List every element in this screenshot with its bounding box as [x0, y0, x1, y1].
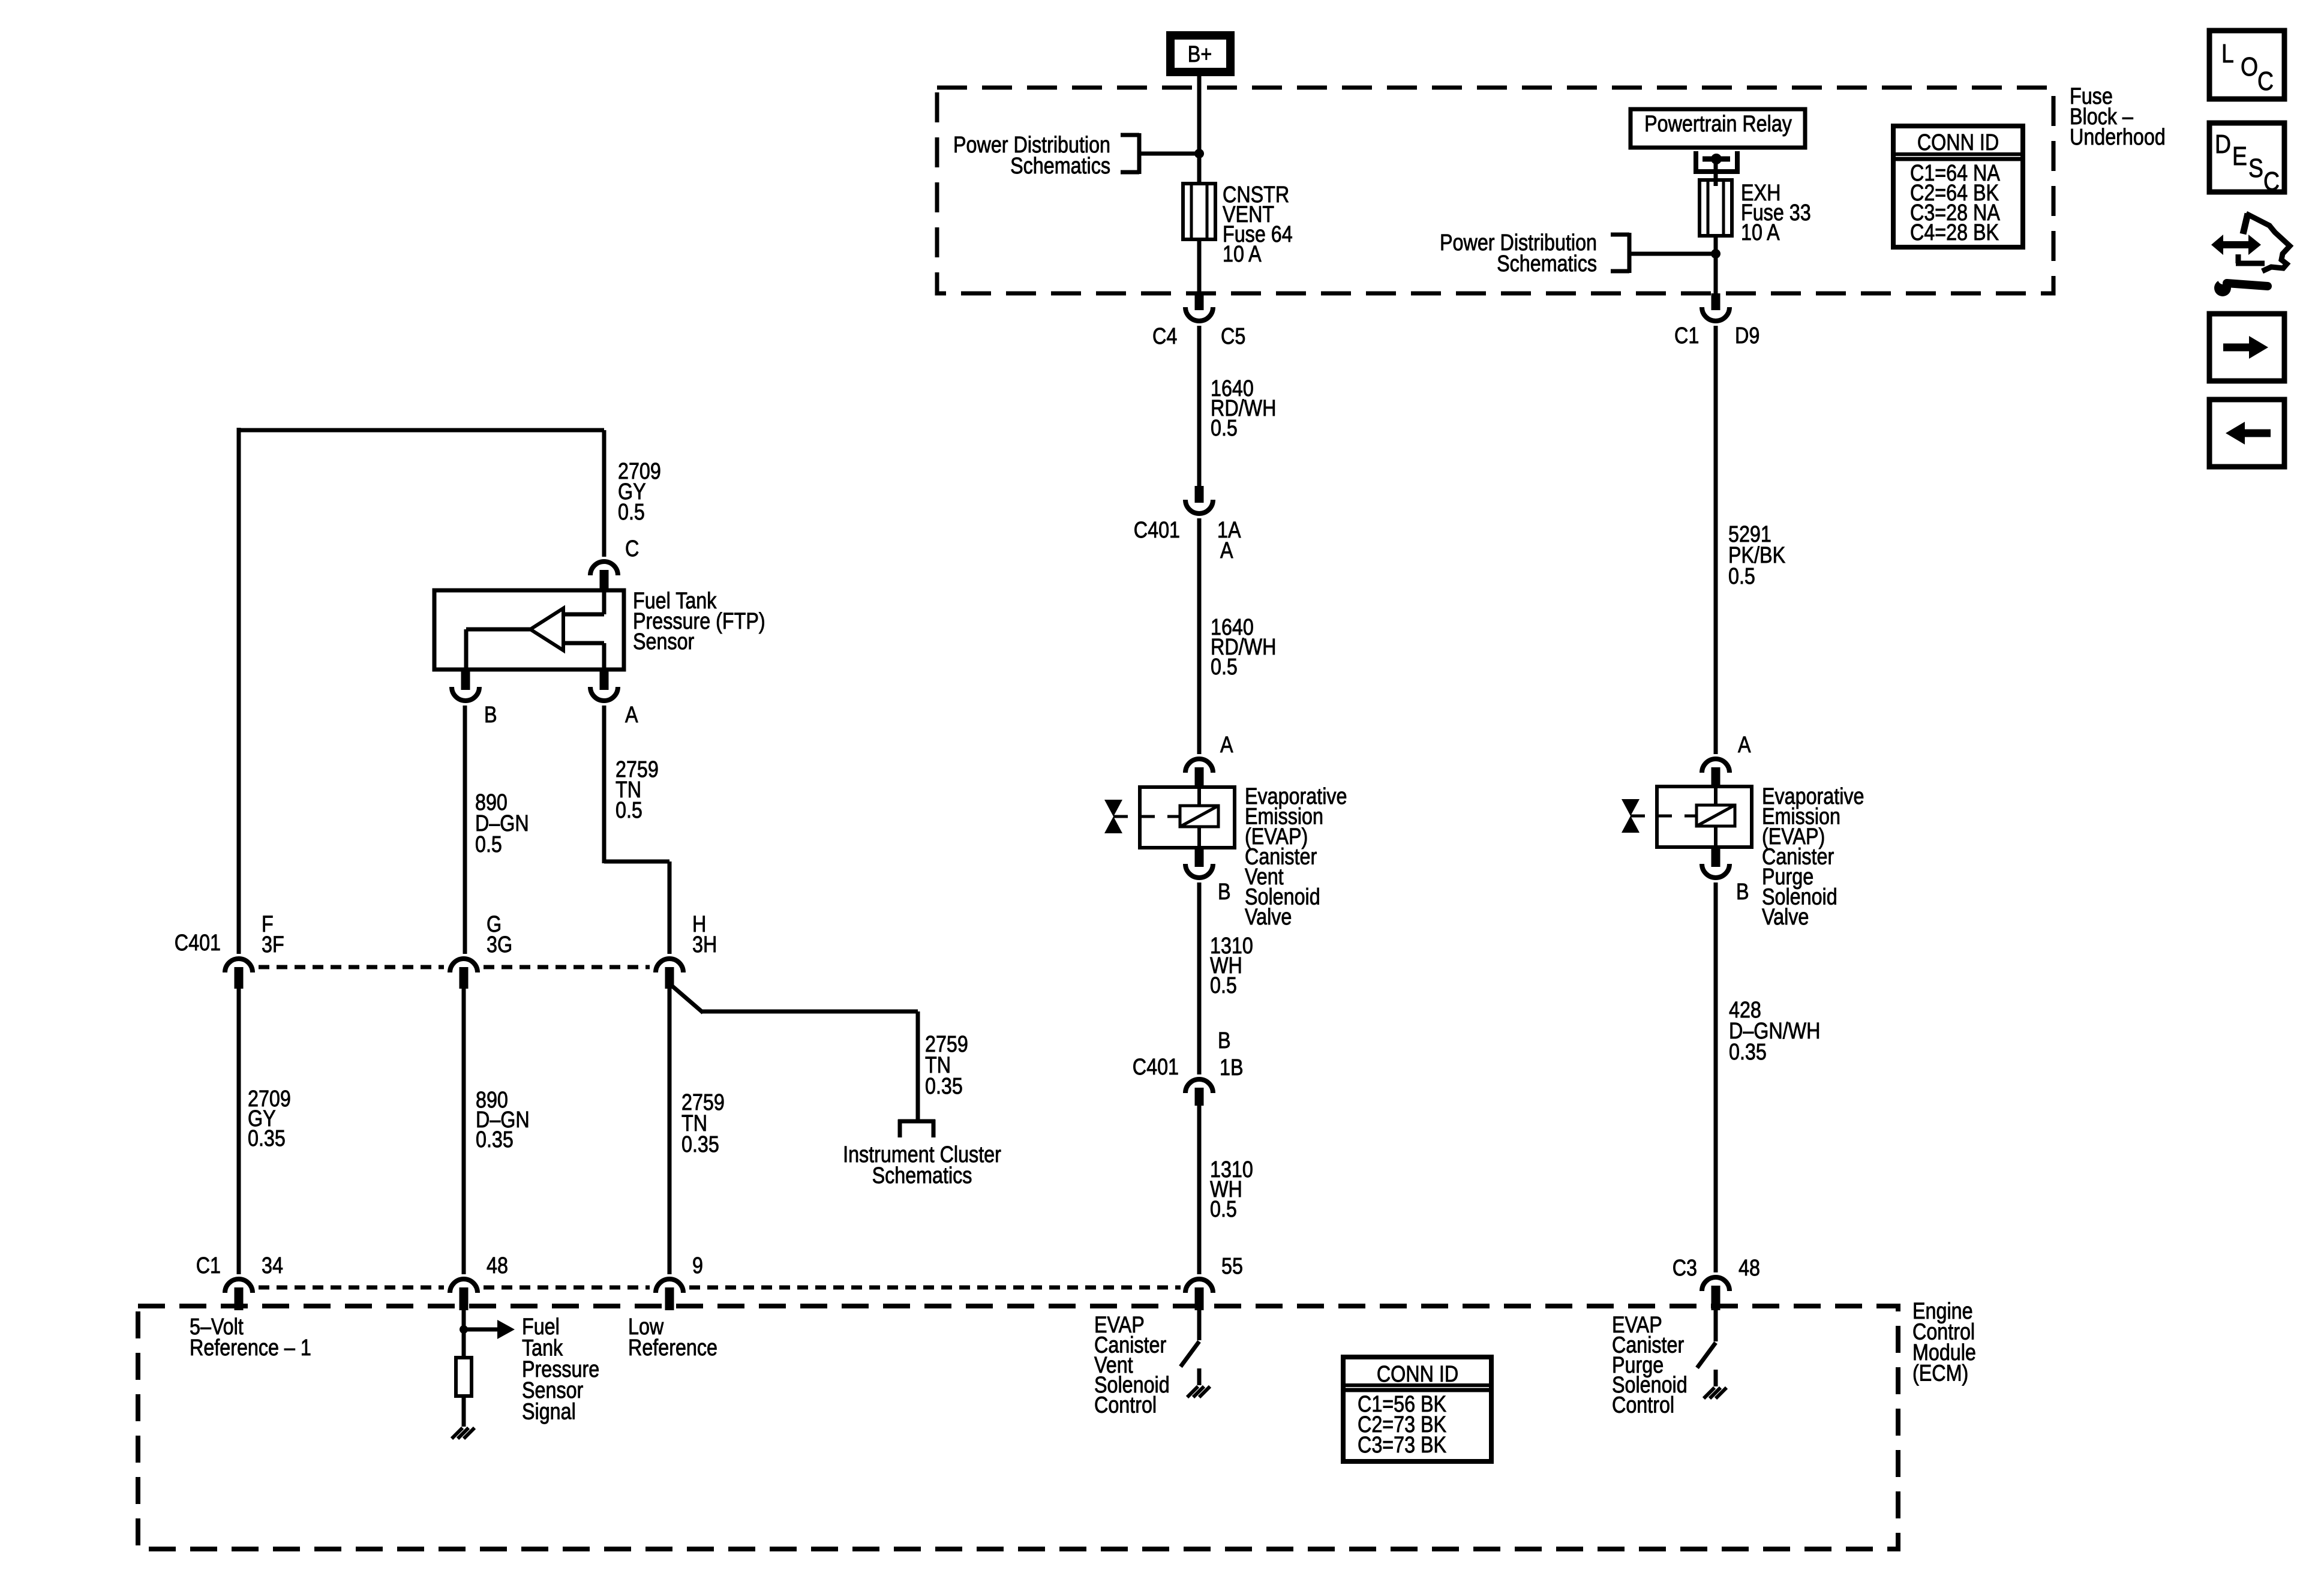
svg-text:C: C [2263, 166, 2280, 196]
svg-text:10 A: 10 A [1741, 220, 1780, 245]
svg-text:0.5: 0.5 [615, 798, 642, 823]
svg-text:CONN ID: CONN ID [1917, 130, 1999, 155]
svg-text:1B: 1B [1220, 1055, 1243, 1080]
svg-text:0.5: 0.5 [618, 500, 645, 525]
svg-text:L: L [2221, 38, 2234, 68]
svg-text:Reference: Reference [628, 1335, 717, 1361]
svg-text:C: C [2257, 66, 2274, 96]
svg-text:C401: C401 [1134, 518, 1180, 543]
svg-text:S: S [2248, 153, 2263, 183]
svg-text:Sensor: Sensor [633, 629, 695, 655]
svg-text:C4: C4 [1152, 324, 1177, 349]
svg-text:Reference – 1: Reference – 1 [190, 1335, 311, 1361]
svg-text:0.35: 0.35 [248, 1126, 286, 1151]
svg-text:Underhood: Underhood [2070, 125, 2166, 150]
svg-text:C401: C401 [1133, 1055, 1179, 1080]
svg-text:A: A [625, 703, 638, 728]
svg-text:0.5: 0.5 [1210, 1197, 1237, 1222]
svg-text:0.5: 0.5 [1210, 973, 1237, 998]
svg-text:0.35: 0.35 [476, 1127, 514, 1152]
svg-text:0.5: 0.5 [1211, 416, 1238, 441]
svg-text:C5: C5 [1221, 324, 1245, 349]
svg-text:Schematics: Schematics [1010, 154, 1110, 179]
svg-text:0.35: 0.35 [681, 1132, 719, 1157]
svg-text:D: D [2215, 129, 2231, 159]
svg-text:48: 48 [487, 1253, 508, 1278]
svg-text:0.5: 0.5 [475, 832, 502, 857]
svg-text:C: C [625, 536, 639, 562]
svg-text:B: B [1218, 879, 1231, 905]
svg-text:A: A [1220, 538, 1233, 563]
svg-text:Control: Control [1612, 1392, 1674, 1418]
svg-text:55: 55 [1221, 1254, 1243, 1279]
svg-text:C3: C3 [1673, 1256, 1697, 1281]
svg-text:CONN ID: CONN ID [1377, 1362, 1458, 1387]
svg-text:A: A [1220, 733, 1233, 758]
svg-text:B: B [1218, 1028, 1231, 1053]
svg-text:B: B [1736, 879, 1749, 905]
svg-text:E: E [2232, 141, 2247, 171]
svg-text:Control: Control [1094, 1392, 1157, 1418]
svg-text:3F: 3F [262, 932, 284, 957]
svg-text:0.35: 0.35 [925, 1074, 963, 1099]
svg-text:10 A: 10 A [1223, 242, 1262, 267]
svg-text:Schematics: Schematics [872, 1163, 972, 1188]
svg-text:D9: D9 [1735, 323, 1759, 349]
svg-text:C1: C1 [1674, 323, 1699, 349]
svg-text:O: O [2241, 52, 2258, 82]
svg-text:A: A [1738, 733, 1751, 758]
svg-text:34: 34 [262, 1253, 283, 1278]
svg-text:9: 9 [692, 1253, 703, 1278]
svg-text:B: B [484, 703, 497, 728]
svg-text:Valve: Valve [1762, 905, 1809, 930]
svg-text:3H: 3H [692, 932, 717, 957]
svg-text:B+: B+ [1188, 42, 1212, 67]
svg-text:Signal: Signal [522, 1399, 576, 1424]
svg-text:3G: 3G [487, 932, 512, 957]
svg-text:Valve: Valve [1245, 905, 1292, 930]
svg-text:0.35: 0.35 [1729, 1040, 1767, 1065]
svg-text:Schematics: Schematics [1497, 251, 1597, 277]
svg-text:48: 48 [1739, 1256, 1760, 1281]
svg-text:0.5: 0.5 [1728, 564, 1755, 589]
svg-text:Powertrain Relay: Powertrain Relay [1644, 112, 1792, 137]
svg-text:C3=73 BK: C3=73 BK [1358, 1433, 1447, 1458]
svg-text:C4=28 BK: C4=28 BK [1910, 220, 1999, 245]
svg-text:0.5: 0.5 [1211, 655, 1238, 680]
svg-text:(ECM): (ECM) [1912, 1361, 1968, 1386]
svg-text:C401: C401 [175, 930, 221, 956]
svg-text:C1: C1 [196, 1253, 221, 1278]
